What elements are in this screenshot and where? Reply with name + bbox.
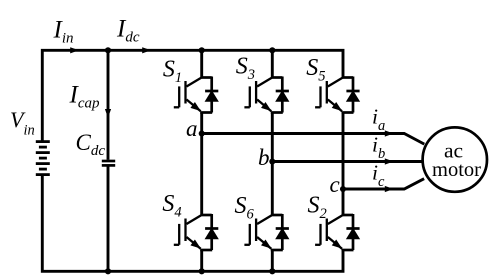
- switch S5 (igbt + diode): [315, 77, 360, 113]
- wire: bottom stub leg 1: [200, 250, 203, 271]
- junction dot top rail / capacitor branch: [105, 47, 111, 53]
- svg-text:S1: S1: [163, 56, 182, 86]
- arrow i_a: [385, 130, 394, 136]
- svg-text:S2: S2: [308, 193, 327, 223]
- svg-text:S5: S5: [306, 55, 325, 85]
- arrow i_c: [385, 186, 394, 192]
- svg-text:ia: ia: [372, 104, 385, 134]
- junction dot bottom rail / leg 2: [269, 268, 275, 274]
- node a junction dot: [199, 130, 205, 136]
- switch S1 (igbt + diode): [174, 77, 219, 113]
- svg-text:Vin: Vin: [10, 107, 35, 138]
- svg-text:Icap: Icap: [69, 81, 100, 111]
- wire: leg 1 middle (S1 emitter to S4 collector through node a): [200, 113, 203, 216]
- svg-text:c: c: [330, 172, 340, 197]
- switch S6 (igbt + diode): [244, 214, 289, 250]
- wire: top stub leg 2: [271, 50, 274, 77]
- svg-text:S6: S6: [235, 193, 255, 223]
- wire: capacitor branch lower: [107, 167, 110, 272]
- arrow I_in: [70, 47, 79, 53]
- junction dot bottom rail / capacitor branch: [105, 268, 111, 274]
- wire: top rail with left drop to battery and right drop to S5: [42, 50, 343, 141]
- svg-text:motor: motor: [432, 159, 481, 181]
- wire: bottom rail with left rise from battery and right rise to S2: [42, 175, 343, 271]
- wire: bottom stub leg 2: [271, 250, 274, 271]
- svg-text:ib: ib: [372, 132, 385, 162]
- wire: phase b line to motor: [272, 160, 423, 163]
- svg-text:S4: S4: [162, 191, 181, 221]
- wire: leg 3 middle (through node c): [342, 113, 345, 216]
- arrow I_cap: [105, 109, 111, 118]
- wire: phase c line to motor: [343, 179, 424, 189]
- junction dot top rail / leg 1: [199, 47, 205, 53]
- junction dot bottom rail / leg 1: [199, 268, 205, 274]
- wire: leg 2 middle (through node b): [271, 113, 274, 216]
- arrow i_b: [385, 158, 394, 164]
- battery V_in: [36, 142, 50, 175]
- node c junction dot: [340, 186, 346, 192]
- wire: phase a line to motor: [202, 134, 425, 145]
- svg-text:Cdc: Cdc: [76, 130, 106, 159]
- svg-text:b: b: [258, 145, 270, 170]
- switch S2 (igbt + diode): [315, 214, 360, 250]
- svg-text:S3: S3: [236, 54, 255, 84]
- switch S3 (igbt + diode): [244, 77, 289, 113]
- wire: top stub leg 1: [200, 50, 203, 77]
- junction dot top rail / leg 2: [269, 47, 275, 53]
- arrow I_dc: [142, 47, 151, 53]
- svg-text:Idc: Idc: [116, 16, 140, 46]
- switch S4 (igbt + diode): [174, 214, 219, 250]
- svg-text:ic: ic: [372, 160, 385, 190]
- node b junction dot: [269, 158, 275, 164]
- wire: capacitor branch upper: [107, 50, 110, 160]
- svg-text:Iin: Iin: [53, 16, 74, 46]
- capacitor C_dc: [102, 161, 115, 165]
- ac motor circle: [423, 127, 487, 191]
- svg-text:a: a: [186, 116, 198, 141]
